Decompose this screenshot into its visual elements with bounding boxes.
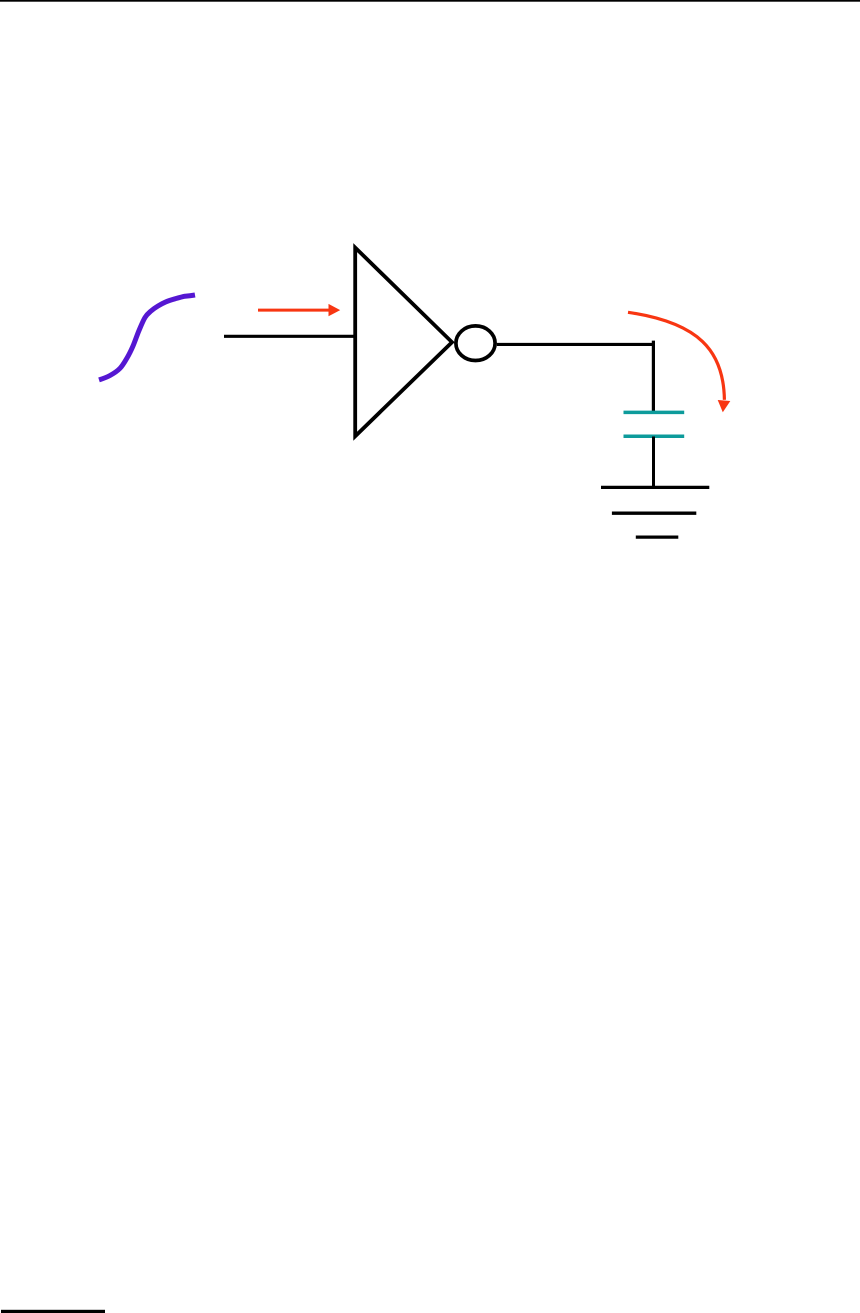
inversion bubble (456, 326, 495, 361)
input waveform (purple sigmoid) (99, 295, 195, 380)
wire (capacitor to ground) (652, 437, 655, 488)
charging-current arrow (red curved) (628, 312, 730, 412)
footnote rule (1, 1310, 105, 1313)
ground (middle bar) (612, 512, 696, 515)
wire (inverter output) (497, 343, 655, 346)
signal-flow arrow (red, into inverter) (258, 304, 340, 316)
ground (bottom bar) (636, 535, 679, 538)
capacitor C (top plate) (624, 411, 685, 415)
inverter U1 (triangle) (355, 248, 452, 437)
wire (down to capacitor) (652, 341, 655, 412)
top rule (0, 0, 860, 2)
ground (top bar) (601, 486, 709, 489)
capacitor C (bottom plate) (624, 435, 685, 439)
wire (input to inverter) (224, 335, 356, 338)
